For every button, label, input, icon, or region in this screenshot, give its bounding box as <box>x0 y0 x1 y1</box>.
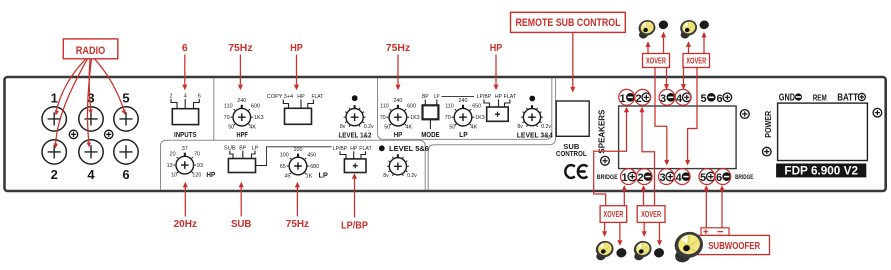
tweeter pair4 ch2 <box>653 247 665 258</box>
knob HP34 <box>380 98 420 131</box>
switch MODE BP/LP <box>421 94 474 139</box>
svg-text:13: 13 <box>167 163 173 169</box>
xover top1 arrows to speakers <box>648 36 664 54</box>
power terminal block <box>778 103 868 160</box>
section box channels 5and6 <box>161 140 426 190</box>
svg-text:2: 2 <box>51 167 58 182</box>
wire xover2 to terminal 4 bottom <box>688 54 697 161</box>
RCA jack 1 <box>42 107 66 131</box>
svg-text:SUBWOOFER: SUBWOOFER <box>708 241 761 252</box>
svg-text:REM: REM <box>813 93 827 102</box>
wire bottom xover1 to terminal 1 bottom <box>623 190 625 205</box>
svg-text:1K3: 1K3 <box>475 115 485 121</box>
label arrow 20Hz <box>184 187 186 217</box>
panel screw left of bridge <box>601 156 610 165</box>
level knob LEVEL34 <box>517 105 551 130</box>
svg-text:240: 240 <box>393 98 402 104</box>
remote sub control arrow <box>572 32 574 87</box>
svg-text:6: 6 <box>182 42 188 54</box>
svg-text:0.2v: 0.2v <box>407 173 417 179</box>
model label FDP 6.900 V2 <box>776 164 866 178</box>
wire bottom xover1 to terminal 1 top <box>594 111 627 206</box>
svg-text:8v: 8v <box>517 124 523 130</box>
wire bottom xover2 to terminal 2 top <box>642 111 655 206</box>
subwoofer terminal box <box>701 228 729 236</box>
svg-text:70: 70 <box>224 115 230 121</box>
label arrow SUB <box>240 187 242 217</box>
INPUTS connector <box>170 94 201 140</box>
svg-text:LP: LP <box>434 94 440 100</box>
tweeter pair2 ch4 <box>699 19 710 30</box>
svg-text:2: 2 <box>170 94 173 100</box>
svg-text:XOVER: XOVER <box>646 56 666 65</box>
svg-text:HP: HP <box>350 146 357 152</box>
xover box top2 <box>683 54 710 68</box>
svg-text:LP/BP: LP/BP <box>333 146 348 152</box>
svg-text:BATT: BATT <box>837 92 858 103</box>
svg-text:LP/BP: LP/BP <box>341 220 368 232</box>
svg-text:INPUTS: INPUTS <box>174 130 197 139</box>
svg-text:LP/BP: LP/BP <box>477 94 492 100</box>
svg-text:HPF: HPF <box>237 130 249 139</box>
svg-text:1K3: 1K3 <box>410 115 420 121</box>
svg-text:XOVER: XOVER <box>641 210 661 219</box>
svg-text:240: 240 <box>459 98 468 104</box>
panel screw top right of power <box>873 108 882 117</box>
svg-text:FLAT: FLAT <box>359 146 372 152</box>
svg-text:MODE: MODE <box>421 130 439 139</box>
svg-text:LP: LP <box>459 130 468 139</box>
svg-text:XOVER: XOVER <box>686 56 706 65</box>
red circles terminals bottom 1-6 <box>621 169 637 185</box>
svg-text:SUB: SUB <box>224 145 236 151</box>
svg-text:4: 4 <box>184 94 187 100</box>
svg-text:COPY 3+4: COPY 3+4 <box>267 94 293 100</box>
wires subwoofer to terminals 5 6 <box>706 190 722 228</box>
svg-text:20Hz: 20Hz <box>174 218 197 230</box>
panel screw between RCA jacks left <box>69 130 77 138</box>
svg-text:LP: LP <box>252 145 259 151</box>
svg-text:50: 50 <box>228 125 234 131</box>
knob LP56 <box>280 147 319 180</box>
svg-text:75Hz: 75Hz <box>228 42 252 54</box>
svg-text:75Hz: 75Hz <box>286 218 309 230</box>
tweeter pair1 ch3 <box>658 19 669 30</box>
svg-text:4K: 4K <box>249 125 256 131</box>
woofer speaker pair2 ch4 <box>677 18 700 40</box>
svg-text:0.2v: 0.2v <box>541 124 551 130</box>
svg-text:RADIO: RADIO <box>76 45 106 57</box>
svg-text:HP: HP <box>394 130 403 139</box>
svg-text:0.2v: 0.2v <box>364 124 374 130</box>
svg-text:70: 70 <box>445 115 451 121</box>
svg-text:GND: GND <box>779 92 795 103</box>
svg-text:HP: HP <box>206 170 215 179</box>
svg-text:6: 6 <box>122 167 129 182</box>
svg-text:600: 600 <box>407 104 416 110</box>
section wrap line sub control area <box>428 78 555 190</box>
svg-text:HP: HP <box>290 42 303 54</box>
svg-text:FDP 6.900 V2: FDP 6.900 V2 <box>784 163 858 177</box>
gain dot LEVEL 3and4 <box>529 96 535 102</box>
wire xover1 to terminal 3 bottom <box>655 54 667 161</box>
svg-text:XOVER: XOVER <box>603 210 623 219</box>
arrows bottom xover1 to speakers <box>605 222 620 241</box>
xover box bottom2 <box>637 206 665 223</box>
CE mark <box>565 165 587 178</box>
svg-text:BP: BP <box>239 145 246 151</box>
woofer speaker pair3 ch1 <box>592 239 616 262</box>
level knob LEVEL56 <box>383 154 417 179</box>
svg-text:LEVEL 3&4: LEVEL 3&4 <box>517 130 554 139</box>
wire xover1 to terminal 3 top <box>666 54 668 85</box>
svg-text:HP: HP <box>297 94 305 100</box>
svg-text:SUB: SUB <box>563 144 579 151</box>
svg-text:REMOTE SUB CONTROL: REMOTE SUB CONTROL <box>516 17 621 29</box>
svg-text:1K3: 1K3 <box>254 115 264 121</box>
label arrow HP switch <box>296 55 298 85</box>
svg-text:70: 70 <box>194 152 200 158</box>
svg-text:45: 45 <box>284 173 290 179</box>
svg-text:50: 50 <box>449 125 455 131</box>
svg-text:600: 600 <box>251 104 260 110</box>
svg-text:LEVEL 5&6: LEVEL 5&6 <box>389 144 429 153</box>
section divider inputs <box>213 78 215 140</box>
svg-text:8v: 8v <box>340 124 346 130</box>
woofer speaker pair4 ch2 <box>630 239 654 262</box>
svg-text:75Hz: 75Hz <box>386 42 410 54</box>
svg-text:200: 200 <box>294 147 303 153</box>
RCA jack 6 <box>114 140 138 164</box>
svg-text:70: 70 <box>380 115 386 121</box>
label arrow 75Hz ch34 <box>397 55 399 85</box>
svg-text:LEVEL 1&2: LEVEL 1&2 <box>339 130 372 139</box>
svg-text:LP: LP <box>319 171 328 180</box>
SUBWOOFER label box <box>692 235 770 254</box>
svg-text:450: 450 <box>307 152 316 158</box>
svg-text:65: 65 <box>280 164 286 170</box>
panel screw right of speakers block <box>740 110 749 119</box>
svg-text:SUB: SUB <box>231 218 252 230</box>
wire xover2 to terminal 4 top <box>683 54 685 85</box>
svg-text:HP: HP <box>490 42 503 54</box>
svg-text:4K: 4K <box>471 125 478 131</box>
svg-text:8v: 8v <box>383 173 389 179</box>
svg-text:4: 4 <box>87 167 95 182</box>
svg-text:FLAT: FLAT <box>504 94 517 100</box>
speakers terminal block <box>619 106 737 169</box>
knob HPF <box>224 98 264 131</box>
RCA jack 2 <box>42 140 66 164</box>
svg-text:110: 110 <box>380 104 389 110</box>
RCA jack 3 <box>79 107 103 131</box>
svg-text:SPEAKERS: SPEAKERS <box>598 109 607 154</box>
svg-text:FLAT: FLAT <box>312 94 324 100</box>
amplifier rear panel <box>5 77 886 191</box>
RCA jack 5 <box>114 107 138 131</box>
svg-text:680: 680 <box>310 164 319 170</box>
svg-text:100: 100 <box>280 152 289 158</box>
xover box bottom1 <box>600 206 627 223</box>
switch LP/BP HP FLAT ch5and6 <box>333 146 373 173</box>
svg-text:POWER: POWER <box>764 111 773 138</box>
svg-text:BRIDGE: BRIDGE <box>597 174 618 181</box>
svg-text:6: 6 <box>716 93 722 105</box>
level knob LEVEL12 <box>340 105 374 130</box>
svg-text:5: 5 <box>700 93 706 105</box>
svg-text:20: 20 <box>170 152 176 158</box>
svg-text:BRIDGE: BRIDGE <box>735 174 753 181</box>
panel screw between RCA jacks right <box>105 130 113 138</box>
gain dot LEVEL 5and6 <box>379 145 385 151</box>
label arrow 6 <box>184 55 186 85</box>
svg-text:1: 1 <box>51 90 58 105</box>
svg-text:93: 93 <box>197 163 203 169</box>
svg-text:1K: 1K <box>306 173 313 179</box>
RCA jack 4 <box>79 140 103 164</box>
svg-text:HP: HP <box>495 94 502 100</box>
woofer speaker pair1 ch3 <box>635 18 658 40</box>
label arrow LP/BP ch56 <box>354 179 356 218</box>
svg-text:240: 240 <box>237 98 246 104</box>
svg-text:110: 110 <box>224 104 233 110</box>
subwoofer speaker <box>670 229 707 264</box>
switch SUB BP LP <box>224 145 332 172</box>
SUB CONTROL jack <box>556 101 589 136</box>
svg-text:110: 110 <box>445 104 454 110</box>
radio curves to jacks <box>56 59 86 113</box>
xover top2 arrows to speakers <box>689 36 705 54</box>
label arrow HP ch34 <box>495 55 497 85</box>
panel screw bottom left of power <box>763 147 772 156</box>
tweeter pair3 ch1 <box>615 247 627 258</box>
label arrow 75Hz ch56 <box>296 187 298 217</box>
switch LP/BP HP FLAT ch3and4 <box>477 94 517 121</box>
xover box top1 <box>643 54 670 68</box>
RADIO label box <box>63 39 118 59</box>
arrows bottom xover2 to speakers <box>644 222 659 241</box>
knob HP56 <box>167 146 203 179</box>
label arrow 75Hz hpf <box>239 55 241 85</box>
gain dot LEVEL 1and2 <box>352 95 358 101</box>
knob LP34 <box>445 98 485 131</box>
red circles terminals top 1-4 <box>619 89 635 105</box>
svg-text:650: 650 <box>472 104 481 110</box>
svg-text:5: 5 <box>122 90 129 105</box>
svg-text:37: 37 <box>182 146 188 152</box>
REMOTE SUB CONTROL label box <box>511 12 626 32</box>
svg-text:CONTROL: CONTROL <box>556 151 587 158</box>
svg-text:BP: BP <box>422 94 429 100</box>
svg-text:50: 50 <box>384 125 390 131</box>
switch COPY 3+4 / HP / FLAT <box>267 94 324 124</box>
svg-text:120: 120 <box>192 172 201 178</box>
section box channels 3and4 <box>378 78 552 139</box>
wire bottom xover2 to terminal 2 bottom <box>643 190 645 205</box>
svg-text:6: 6 <box>198 94 201 100</box>
svg-text:4K: 4K <box>406 125 413 131</box>
svg-text:10: 10 <box>171 172 177 178</box>
arrowheads <box>182 85 187 91</box>
